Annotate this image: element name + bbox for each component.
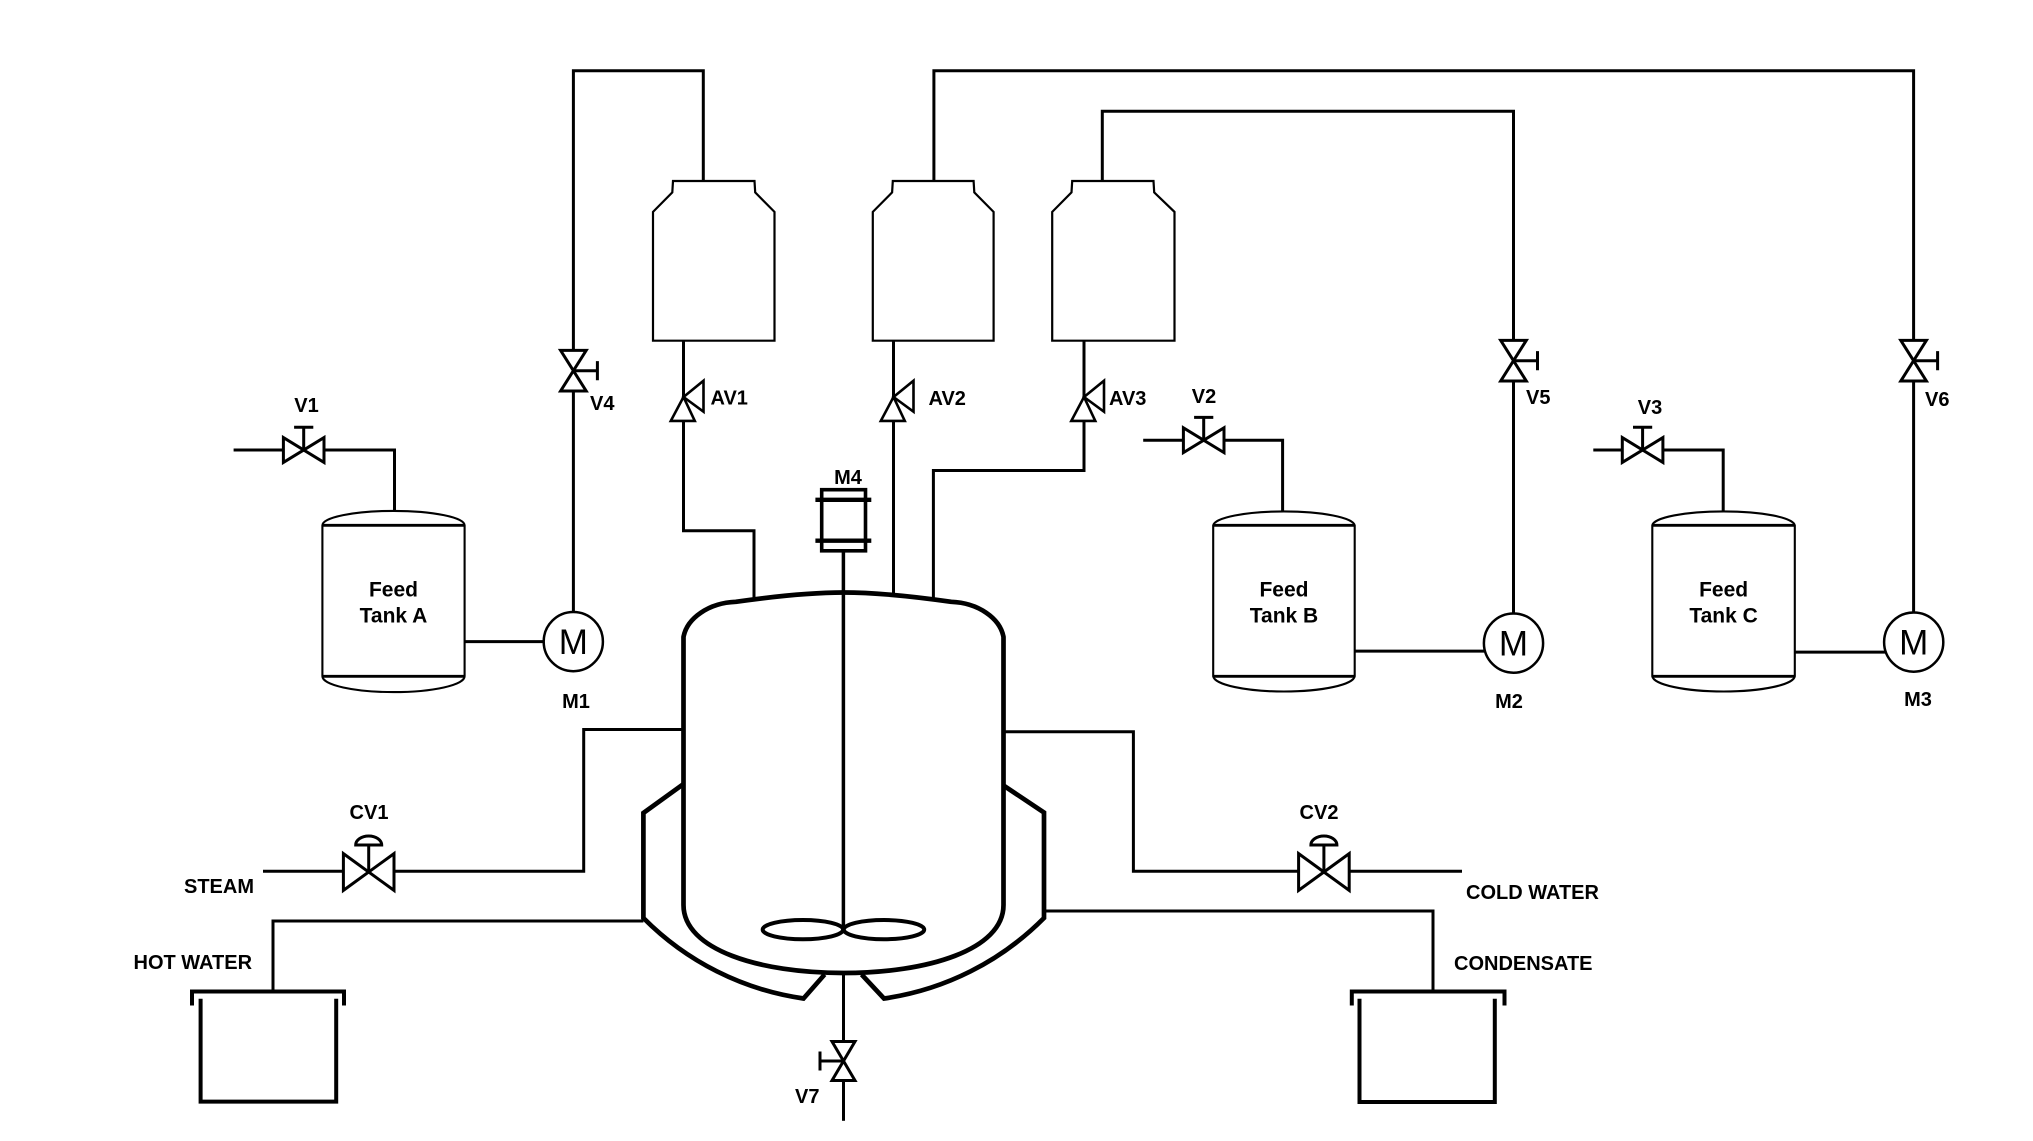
wire hopper2 outlet through AV2 to reactor dome	[892, 341, 895, 600]
svg-text:Tank C: Tank C	[1689, 605, 1757, 628]
svg-text:M: M	[559, 623, 588, 662]
valve V2	[1183, 417, 1224, 452]
wire V1 inlet line to Feed Tank A	[234, 450, 395, 515]
agitator shaft	[842, 549, 846, 930]
svg-text:V3: V3	[1638, 397, 1662, 419]
motor M4 agitator drive	[815, 490, 871, 551]
svg-text:CV2: CV2	[1300, 802, 1339, 824]
wire M3 to V6 to hopper2 top loop	[934, 71, 1914, 642]
motor M2	[1484, 614, 1543, 673]
wire hot water line from jacket to hot water tank	[273, 921, 643, 993]
svg-text:AV2: AV2	[929, 388, 966, 410]
svg-text:AV3: AV3	[1109, 388, 1146, 410]
motor M1	[544, 612, 603, 671]
wire cold water line from reactor through CV2	[995, 732, 1462, 872]
wire V7 outlet	[842, 1081, 845, 1121]
svg-text:V7: V7	[795, 1086, 819, 1108]
wire Feed Tank A to M1	[465, 640, 574, 643]
vessel hopper 1	[653, 181, 775, 341]
svg-text:V2: V2	[1192, 386, 1216, 408]
valve V5	[1501, 340, 1538, 381]
svg-text:CONDENSATE: CONDENSATE	[1454, 953, 1593, 975]
svg-text:M1: M1	[562, 691, 590, 713]
vessel Feed Tank A	[322, 511, 464, 692]
svg-text:V5: V5	[1526, 387, 1550, 409]
wire steam line through CV1 to reactor	[263, 730, 690, 872]
vessel hot water tank	[192, 992, 344, 1102]
svg-text:STEAM: STEAM	[184, 876, 254, 898]
wire V2 inlet line to Feed Tank B	[1143, 440, 1282, 515]
valve V3	[1622, 427, 1663, 462]
svg-text:Feed: Feed	[1699, 579, 1748, 602]
svg-text:M3: M3	[1904, 689, 1932, 711]
vessel condensate tank	[1352, 992, 1505, 1103]
svg-text:HOT WATER: HOT WATER	[134, 952, 253, 974]
valve V4	[561, 350, 598, 391]
control valve CV2	[1299, 836, 1350, 890]
wire condensate line from jacket to condensate tank	[1044, 911, 1433, 993]
svg-text:M2: M2	[1495, 691, 1523, 713]
wire reactor drain to V7	[842, 971, 845, 1042]
reactor jacket left	[643, 784, 824, 999]
wire Feed Tank C to M3	[1795, 651, 1914, 654]
svg-text:Tank A: Tank A	[360, 605, 428, 628]
reactor vessel body	[684, 593, 1004, 974]
svg-text:V1: V1	[294, 395, 318, 417]
wire V3 inlet line to Feed Tank C	[1593, 450, 1723, 515]
wire hopper3 outlet through AV3 to reactor dome	[933, 341, 1084, 604]
air valve AV3	[1071, 381, 1104, 421]
vessel Feed Tank C	[1652, 511, 1795, 691]
air valve AV2	[881, 381, 914, 421]
wire hopper1 outlet through AV1 to reactor dome	[684, 341, 755, 604]
wire M1 to V4 to hopper1 top loop	[573, 71, 703, 642]
agitator propeller	[763, 920, 925, 939]
svg-text:V6: V6	[1925, 389, 1949, 411]
svg-text:M4: M4	[834, 467, 863, 489]
svg-text:Feed: Feed	[369, 579, 418, 602]
label Feed Tank C	[1689, 579, 1757, 628]
svg-text:M: M	[1499, 625, 1528, 664]
svg-text:COLD WATER: COLD WATER	[1466, 882, 1600, 904]
valve V7	[820, 1042, 855, 1081]
svg-text:V4: V4	[590, 393, 615, 415]
motor M3	[1884, 613, 1943, 672]
vessel hopper 3	[1052, 181, 1174, 341]
control valve CV1	[343, 836, 394, 890]
vessel Feed Tank B	[1213, 511, 1355, 691]
svg-text:CV1: CV1	[350, 802, 389, 824]
svg-text:Tank B: Tank B	[1250, 605, 1318, 628]
air valve AV1	[671, 381, 704, 421]
svg-text:Feed: Feed	[1259, 579, 1308, 602]
svg-text:AV1: AV1	[711, 388, 748, 410]
svg-text:M: M	[1899, 624, 1928, 663]
wire Feed Tank B to M2	[1355, 650, 1514, 653]
wire M2 to V5 to hopper3 top loop	[1102, 111, 1513, 643]
reactor jacket right	[862, 786, 1044, 999]
label Feed Tank B	[1250, 579, 1318, 628]
valve V1	[283, 427, 324, 462]
vessel hopper 2	[873, 181, 994, 341]
valve V6	[1901, 340, 1938, 381]
label Feed Tank A	[360, 579, 428, 628]
